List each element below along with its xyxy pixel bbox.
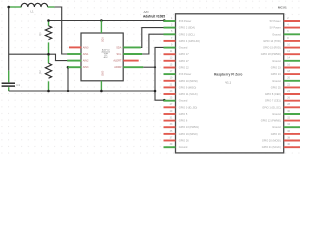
wire AIN3 to ground [67, 67, 69, 91]
svg-text:Ground: Ground [179, 145, 188, 149]
node GND rail [100, 90, 103, 93]
resistor R2 [38, 54, 52, 91]
pin 20 Ground [272, 77, 300, 83]
pin 32 GPIO 12 (PWM0) [261, 117, 300, 123]
svg-text:GPIO 11 (SCLK): GPIO 11 (SCLK) [179, 92, 198, 96]
svg-text:ALERT: ALERT [113, 60, 121, 63]
svg-text:5V Power: 5V Power [270, 26, 281, 30]
wire ground to RPi [155, 47, 164, 100]
svg-text:GPIO 24: GPIO 24 [271, 72, 281, 76]
resistor R1 [38, 21, 52, 55]
pin 14 Ground [272, 57, 300, 63]
pin ADDR [114, 66, 143, 69]
pin 35 GPIO 19 (MISO) [164, 130, 198, 136]
op-amp/ADC chip U1 ADS1115 [81, 33, 123, 81]
svg-text:Ground: Ground [272, 32, 281, 36]
svg-text:GPIO 8 (CE0): GPIO 8 (CE0) [265, 92, 281, 96]
pin 7 GPIO 4 (GPCLK0) [164, 37, 200, 43]
pin 25 Ground [164, 97, 188, 103]
svg-text:GPIO 23: GPIO 23 [271, 66, 281, 70]
svg-text:GPIO 10 (MOSI): GPIO 10 (MOSI) [179, 79, 198, 83]
pin AIN0 [69, 46, 89, 49]
svg-text:GPIO 13 (PWM1): GPIO 13 (PWM1) [179, 125, 199, 129]
node AIN3 [67, 66, 70, 69]
svg-text:GPIO 4 (GPCLK0): GPIO 4 (GPCLK0) [179, 39, 200, 43]
pin 16 GPIO 23 [271, 63, 300, 69]
svg-text:GPIO 18 (PWM0): GPIO 18 (PWM0) [261, 52, 281, 56]
svg-text:GPIO 5: GPIO 5 [179, 112, 188, 116]
pin 5 GPIO 3 (SCL) [164, 30, 195, 36]
wire SCL [142, 34, 163, 54]
wire input to AIN2 [9, 54, 68, 60]
pin 24 GPIO 8 (CE0) [265, 90, 300, 96]
pin 13 GPIO 27 [164, 57, 190, 63]
pin 33 GPIO 13 (PWM1) [164, 123, 199, 129]
pin 28 GPIO 1 (ID_SC) [262, 103, 300, 109]
node VDD tap [100, 19, 103, 22]
svg-text:Ground: Ground [179, 99, 188, 103]
node R1/R2 junction [47, 53, 50, 56]
pin 8 GPIO 14 (TXD) [263, 37, 300, 43]
svg-text:Ground: Ground [272, 59, 281, 63]
pin 21 GPIO 9 (MISO) [164, 83, 197, 89]
pin 23 GPIO 11 (SCLK) [164, 90, 198, 96]
svg-text:GPIO 21 (SCLK): GPIO 21 (SCLK) [262, 145, 281, 149]
svg-text:SCL: SCL [117, 53, 122, 56]
pin 34 Ground [272, 123, 300, 129]
pin GND [100, 71, 102, 91]
svg-text:C1: C1 [16, 83, 20, 87]
node ADDR junction [154, 66, 156, 68]
svg-text:Ground: Ground [179, 46, 188, 50]
pin 1 3V3 Power [164, 17, 192, 23]
node R1 top [47, 19, 50, 22]
node pin1 tap [163, 19, 166, 22]
svg-text:GPIO 27: GPIO 27 [179, 59, 189, 63]
pin 30 Ground [272, 110, 300, 116]
pin SDA [116, 46, 141, 49]
svg-text:GPIO 9 (MISO): GPIO 9 (MISO) [179, 85, 197, 89]
svg-text:GPIO 0 (ID_SD): GPIO 0 (ID_SD) [179, 105, 198, 109]
svg-text:GPIO 25: GPIO 25 [271, 85, 281, 89]
wire input vertical to C1 [8, 7, 10, 71]
pin 9 Ground [164, 44, 188, 50]
MCU1 Raspberry Pi Zero block [176, 5, 287, 153]
pin 2 5V Power [270, 17, 300, 23]
svg-text:AIN2: AIN2 [83, 60, 89, 63]
svg-text:3V3 Power: 3V3 Power [179, 72, 192, 76]
pin ALERT [113, 60, 138, 63]
svg-text:5V Power: 5V Power [270, 19, 281, 23]
svg-text:L1: L1 [30, 9, 34, 13]
wire ground rail [9, 90, 155, 92]
pin 4 5V Power [270, 24, 300, 30]
svg-text:3V3 Power: 3V3 Power [179, 19, 192, 23]
node AIN3 ground [67, 90, 69, 92]
pin 29 GPIO 5 [164, 110, 188, 116]
svg-text:GPIO 12 (PWM0): GPIO 12 (PWM0) [261, 119, 281, 123]
pin 36 GPIO 16 [271, 130, 300, 136]
svg-text:GPIO 16: GPIO 16 [271, 132, 281, 136]
inductor L1 [9, 3, 55, 13]
pin AIN3 [68, 66, 89, 69]
node top-left corner [7, 6, 10, 9]
svg-text:ADC: ADC [104, 56, 109, 59]
label A/D Adafruit #1085 [143, 10, 165, 18]
pin SCL [117, 53, 143, 56]
pin 12 GPIO 18 (PWM0) [261, 50, 300, 56]
svg-text:GPIO 26: GPIO 26 [179, 139, 189, 143]
pin 11 GPIO 17 [164, 50, 190, 56]
pin 6 Ground [272, 30, 300, 36]
svg-text:Ground: Ground [272, 125, 281, 129]
pin 17 3V3 Power [164, 70, 192, 76]
wire SDA [141, 28, 164, 48]
svg-text:Ground: Ground [272, 79, 281, 83]
svg-text:Adafruit #1085: Adafruit #1085 [143, 14, 165, 18]
capacitor C1 [2, 71, 21, 91]
svg-text:GPIO 20 (MOSI): GPIO 20 (MOSI) [262, 139, 281, 143]
pin 37 GPIO 26 [164, 136, 190, 142]
svg-text:GPIO 2 (SDA): GPIO 2 (SDA) [179, 26, 195, 30]
svg-text:GPIO 6: GPIO 6 [179, 119, 188, 123]
svg-text:GPIO 22: GPIO 22 [179, 66, 189, 70]
svg-text:MCU1: MCU1 [278, 5, 287, 9]
svg-text:GPIO 7 (CE1): GPIO 7 (CE1) [265, 99, 281, 103]
node rail end [154, 90, 157, 93]
svg-text:AIN1: AIN1 [83, 53, 89, 56]
pin VDD [100, 21, 102, 43]
svg-text:GND: GND [100, 71, 102, 76]
svg-text:GPIO 1 (ID_SC): GPIO 1 (ID_SC) [262, 105, 281, 109]
pin 19 GPIO 10 (MOSI) [164, 77, 198, 83]
node R2 bottom [47, 90, 50, 93]
pin 40 GPIO 21 (SCLK) [262, 143, 300, 149]
pin 27 GPIO 0 (ID_SD) [164, 103, 198, 109]
wire 3V3 net [49, 20, 165, 22]
svg-text:GPIO 17: GPIO 17 [179, 52, 189, 56]
svg-text:GPIO 19 (MISO): GPIO 19 (MISO) [179, 132, 198, 136]
wire L1 to AIN1 [55, 7, 68, 54]
svg-text:GPIO 15 (RXD): GPIO 15 (RXD) [263, 46, 281, 50]
svg-text:SDA: SDA [116, 46, 121, 49]
pin 18 GPIO 24 [271, 70, 300, 76]
svg-text:VDD: VDD [100, 37, 102, 42]
pin AIN1 [67, 53, 89, 56]
wire ADDR to ground [143, 66, 155, 68]
pin 22 GPIO 25 [271, 83, 300, 89]
svg-text:Raspberry Pi Zero: Raspberry Pi Zero [214, 73, 242, 77]
pin 39 Ground [164, 143, 188, 149]
pin 10 GPIO 15 (RXD) [263, 44, 300, 50]
svg-text:R2: R2 [38, 70, 42, 74]
svg-text:GPIO 3 (SCL): GPIO 3 (SCL) [179, 32, 195, 36]
pin 26 GPIO 7 (CE1) [265, 97, 300, 103]
svg-text:R1: R1 [38, 32, 42, 36]
svg-text:ADDR: ADDR [114, 66, 121, 69]
pin 31 GPIO 6 [164, 117, 188, 123]
svg-text:AIN0: AIN0 [83, 46, 89, 49]
node pin25 tap [163, 99, 166, 102]
svg-text:Ground: Ground [272, 112, 281, 116]
svg-text:V1.1: V1.1 [225, 80, 231, 84]
pin 3 GPIO 2 (SDA) [164, 24, 196, 30]
pin 38 GPIO 20 (MOSI) [262, 136, 300, 142]
pin AIN2 [67, 60, 89, 63]
pin 15 GPIO 22 [164, 63, 190, 69]
svg-text:GPIO 14 (TXD): GPIO 14 (TXD) [263, 39, 281, 43]
svg-text:AIN3: AIN3 [83, 66, 89, 69]
